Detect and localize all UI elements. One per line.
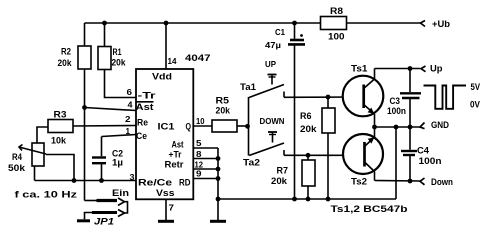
- label pin 4: [128, 100, 133, 110]
- wire: ground riser: [395, 127, 397, 199]
- label C2 value: [112, 149, 123, 169]
- wire: pin 5 stub: [193, 147, 218, 149]
- label pin 12: [195, 160, 204, 170]
- svg-text:20k: 20k: [300, 124, 317, 135]
- svg-text:DOWN: DOWN: [260, 116, 285, 126]
- label pin 6: [127, 87, 133, 97]
- resistor R1: [98, 23, 136, 98]
- node: junction R1 top: [102, 21, 107, 26]
- label R7 value: [271, 166, 288, 188]
- wire: +V top rail left of R8: [85, 22, 321, 24]
- svg-text:Retr: Retr: [165, 160, 184, 171]
- node: junction R6 on bottom rail: [326, 197, 331, 202]
- ground: below IC pin 7: [158, 220, 174, 223]
- svg-text:Ts2: Ts2: [351, 177, 367, 188]
- capacitor C3: [400, 69, 421, 128]
- capacitor C4: [401, 127, 417, 181]
- svg-text:6: 6: [127, 87, 133, 97]
- node: terminal +Ub: [421, 21, 426, 27]
- label pin 10: [196, 116, 205, 126]
- resistor R7: [302, 155, 315, 199]
- wire: pin 9 stub: [193, 178, 218, 180]
- svg-text:Ts1,2 BC547b: Ts1,2 BC547b: [331, 204, 408, 215]
- node: junction R7 top: [306, 153, 311, 158]
- switch Ta2 (DOWN button): [249, 132, 284, 156]
- node: junction IC Vdd column: [164, 21, 169, 26]
- label Ts2: [351, 177, 367, 188]
- svg-text:14: 14: [168, 56, 177, 66]
- label f ca. 10 Hz: [15, 190, 78, 201]
- svg-text:Ast: Ast: [136, 102, 155, 113]
- label Up: [430, 64, 443, 75]
- label Ce: [136, 131, 147, 142]
- node: junction ground riser on GND rail: [394, 125, 399, 130]
- svg-text:9: 9: [196, 169, 202, 179]
- label UP: [265, 59, 276, 69]
- label R4 value: [8, 152, 26, 174]
- node: junction C1 top: [292, 21, 297, 26]
- wire: reset column to ground: [217, 148, 219, 220]
- wire: Ts2 base line: [284, 154, 365, 156]
- label Ein: [112, 188, 129, 199]
- svg-text:5: 5: [196, 138, 202, 148]
- label pin 14: [168, 56, 177, 66]
- pin 14 Vdd stub: [165, 23, 167, 69]
- svg-text:20k: 20k: [216, 106, 231, 117]
- node: junction R5 / button column: [245, 124, 250, 129]
- node: terminal Up: [421, 66, 426, 72]
- wire: pin 3 net (Re/Ce common): [35, 180, 137, 182]
- node: junction pin 12: [216, 167, 221, 172]
- svg-text:R1: R1: [113, 47, 123, 58]
- label +Tr: [169, 150, 182, 161]
- svg-text:0V: 0V: [470, 100, 481, 111]
- label Down: [431, 177, 453, 188]
- resistor R2: [78, 23, 91, 108]
- label pin 8: [196, 149, 202, 159]
- svg-text:Re: Re: [137, 118, 148, 129]
- label Re/Ce: [138, 178, 172, 189]
- wire: +V top rail right of R8 to +Ub terminal: [347, 22, 421, 24]
- label Ts1,2 BC547b: [331, 204, 408, 215]
- node: junction bottom rail: [216, 197, 221, 202]
- svg-text:Vdd: Vdd: [152, 72, 172, 83]
- label +Ub: [432, 19, 450, 30]
- label Ast right side: [172, 140, 185, 151]
- label Q: [186, 122, 192, 133]
- label IC type 4047: [185, 53, 211, 64]
- svg-text:Ts1: Ts1: [351, 64, 368, 75]
- capacitor C1: [288, 23, 305, 199]
- label Ast overlined: [136, 102, 155, 113]
- label Ta2: [243, 158, 260, 169]
- label C1 value: [265, 27, 285, 50]
- label Re: [137, 118, 148, 129]
- svg-text:1µ: 1µ: [112, 158, 123, 169]
- label Ts1: [351, 64, 368, 75]
- label pin 2: [125, 114, 131, 124]
- svg-text:R7: R7: [277, 166, 289, 177]
- svg-text:Q: Q: [186, 122, 192, 133]
- svg-text:R6: R6: [300, 111, 312, 122]
- svg-text:10k: 10k: [51, 136, 67, 147]
- svg-text:IC1: IC1: [158, 122, 176, 133]
- svg-text:2: 2: [125, 114, 131, 124]
- label R1 value: [112, 47, 127, 69]
- label C4 value: [417, 146, 442, 168]
- svg-text:8: 8: [196, 149, 202, 159]
- label Ta1: [240, 82, 257, 93]
- label Vss: [156, 188, 175, 199]
- switch Ta1 (UP button): [249, 75, 284, 98]
- wire: bottom ground rail: [218, 198, 396, 200]
- label pin 1: [126, 126, 131, 136]
- label JP1: [94, 217, 114, 228]
- label pin 3: [130, 172, 135, 182]
- svg-text:Up: Up: [430, 64, 443, 75]
- ground: below JP1: [77, 219, 90, 222]
- label R6 value: [300, 111, 317, 135]
- label C1 polarity mark: [300, 34, 303, 37]
- wire: Q output pin 10: [193, 125, 212, 127]
- svg-text:100n: 100n: [419, 156, 442, 167]
- wire: pin 12 stub: [193, 168, 218, 170]
- node: junction pin 8: [216, 156, 221, 161]
- overline for Ast: [136, 101, 154, 103]
- svg-text:Down: Down: [431, 177, 453, 188]
- svg-text:7: 7: [169, 203, 175, 213]
- label C3 value: [387, 96, 406, 117]
- resistor R8: [321, 17, 347, 30]
- svg-text:f ca. 10 Hz: f ca. 10 Hz: [15, 190, 78, 201]
- label R2 value: [58, 47, 73, 70]
- label pin 5: [196, 138, 202, 148]
- jumper JP1 (Ein): [85, 198, 128, 219]
- node: junction C3 top: [408, 66, 413, 71]
- label 0V: [470, 100, 481, 111]
- capacitor C2: [92, 135, 136, 181]
- svg-text:C1: C1: [275, 27, 285, 37]
- wire: Ts1 base line: [284, 96, 364, 98]
- label 5V: [471, 82, 481, 93]
- label R5 value: [216, 96, 231, 117]
- node: terminal Down: [420, 178, 425, 185]
- wire: button common column: [248, 97, 250, 156]
- node: junction C1 on bottom rail: [292, 197, 297, 202]
- node: junction R6 top: [326, 95, 331, 100]
- svg-text:20k: 20k: [112, 58, 127, 69]
- transistor Q1: Ts1 BC547b: [343, 69, 384, 128]
- svg-text:RD: RD: [179, 178, 191, 189]
- waveform symbol square wave: [424, 86, 467, 109]
- node: junction pin 9: [216, 176, 221, 181]
- svg-text:20k: 20k: [271, 176, 288, 187]
- label Retr: [165, 160, 184, 171]
- svg-text:47µ: 47µ: [265, 40, 281, 50]
- label GND: [431, 120, 449, 131]
- potentiometer R4: [19, 143, 74, 181]
- transistor Q2: Ts2 BC547b: [343, 127, 383, 181]
- resistor R3: [37, 120, 136, 144]
- label DOWN: [260, 116, 285, 126]
- label Vdd: [152, 72, 172, 83]
- svg-text:Ce: Ce: [136, 131, 147, 142]
- svg-text:UP: UP: [265, 59, 276, 69]
- svg-text:100n: 100n: [387, 106, 406, 117]
- node: junction C4 bottom: [408, 179, 413, 184]
- node: junction transistor column on GND rail: [372, 125, 377, 130]
- svg-text:5V: 5V: [471, 82, 481, 93]
- wire: pin 4 net from R2 bottom to IC: [85, 108, 137, 111]
- label R3 value: [51, 110, 67, 147]
- svg-text:100: 100: [328, 32, 345, 43]
- op-amp U1: IC1 4047 body: [136, 69, 193, 199]
- wire: GND rail: [375, 126, 421, 128]
- svg-text:4: 4: [128, 100, 133, 110]
- svg-text:Ta2: Ta2: [243, 158, 260, 169]
- node: junction R7 on bottom rail: [306, 197, 311, 202]
- node: junction wiper on pin3 net: [72, 178, 77, 183]
- label R8 value: [328, 6, 345, 43]
- svg-text:10: 10: [196, 116, 205, 126]
- svg-text:R8: R8: [330, 6, 343, 17]
- label pin 9: [196, 169, 202, 179]
- node: junction R2 / JP1 column: [82, 105, 87, 110]
- svg-text:GND: GND: [431, 120, 449, 131]
- resistor R6: [322, 97, 335, 199]
- wire: pin 8 stub: [193, 158, 218, 160]
- svg-text:C4: C4: [417, 146, 430, 157]
- wire: Up output line: [375, 68, 421, 70]
- ground: below reset column: [210, 220, 226, 223]
- wire: Down output line: [375, 180, 421, 183]
- label RD: [179, 178, 191, 189]
- svg-text:Re/Ce: Re/Ce: [138, 178, 172, 189]
- svg-text:R3: R3: [54, 110, 67, 121]
- svg-text:3: 3: [130, 172, 135, 182]
- svg-text:JP1: JP1: [94, 217, 114, 228]
- svg-text:R2: R2: [61, 47, 71, 58]
- wire: JP1 column down: [84, 108, 86, 201]
- label -Tr: [138, 91, 156, 102]
- svg-text:4047: 4047: [185, 53, 211, 64]
- svg-text:Vss: Vss: [156, 188, 175, 199]
- label pin 7: [169, 203, 175, 213]
- svg-text:50k: 50k: [8, 163, 26, 174]
- node: junction C2 bottom on pin3 net: [99, 178, 104, 183]
- node: junction C3 bottom on GND rail: [408, 125, 413, 130]
- svg-text:+Ub: +Ub: [432, 19, 450, 30]
- svg-text:R4: R4: [12, 152, 23, 163]
- svg-text:1: 1: [126, 126, 131, 136]
- svg-text:Ein: Ein: [112, 188, 129, 199]
- label IC1: [158, 122, 176, 133]
- svg-text:20k: 20k: [58, 58, 73, 69]
- wire: pin 7 Vss to ground: [165, 199, 167, 220]
- svg-text:Ta1: Ta1: [240, 82, 257, 93]
- svg-text:-Tr: -Tr: [138, 91, 156, 102]
- node: terminal GND: [420, 123, 425, 129]
- resistor R5: [212, 120, 249, 132]
